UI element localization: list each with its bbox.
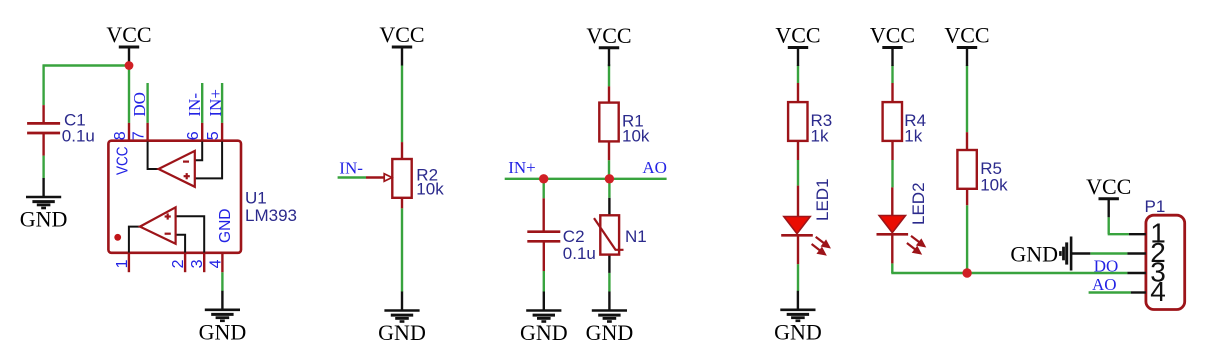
svg-text:10k: 10k <box>980 175 1008 194</box>
svg-text:0.1u: 0.1u <box>62 126 95 145</box>
svg-text:GND: GND <box>1010 242 1058 267</box>
svg-text:7: 7 <box>131 131 148 140</box>
svg-text:DO: DO <box>1094 256 1119 275</box>
svg-text:6: 6 <box>185 131 202 140</box>
svg-text:0.1u: 0.1u <box>563 244 596 263</box>
svg-text:VCC: VCC <box>115 147 132 176</box>
svg-text:10k: 10k <box>416 180 444 199</box>
svg-text:LED2: LED2 <box>909 182 928 225</box>
svg-text:IN+: IN+ <box>508 158 536 177</box>
svg-text:AO: AO <box>642 158 667 177</box>
svg-text:LED1: LED1 <box>813 178 832 221</box>
svg-text:1k: 1k <box>811 127 829 146</box>
svg-text:P1: P1 <box>1145 197 1166 216</box>
svg-text:4: 4 <box>1150 276 1166 307</box>
svg-text:IN-: IN- <box>339 158 363 177</box>
svg-text:DO: DO <box>130 92 149 117</box>
svg-text:8: 8 <box>112 131 129 140</box>
svg-text:5: 5 <box>205 131 222 140</box>
svg-text:IN+: IN+ <box>206 89 225 117</box>
svg-text:2: 2 <box>170 259 187 268</box>
svg-text:LM393: LM393 <box>245 206 297 225</box>
svg-text:U1: U1 <box>245 189 267 208</box>
svg-text:3: 3 <box>189 259 206 268</box>
svg-text:10k: 10k <box>622 127 650 146</box>
svg-text:IN-: IN- <box>185 93 204 117</box>
svg-text:AO: AO <box>1092 275 1117 294</box>
svg-text:N1: N1 <box>625 227 647 246</box>
svg-text:GND: GND <box>217 209 234 243</box>
svg-text:1k: 1k <box>904 127 922 146</box>
svg-text:1: 1 <box>114 259 131 268</box>
svg-text:4: 4 <box>207 259 224 268</box>
